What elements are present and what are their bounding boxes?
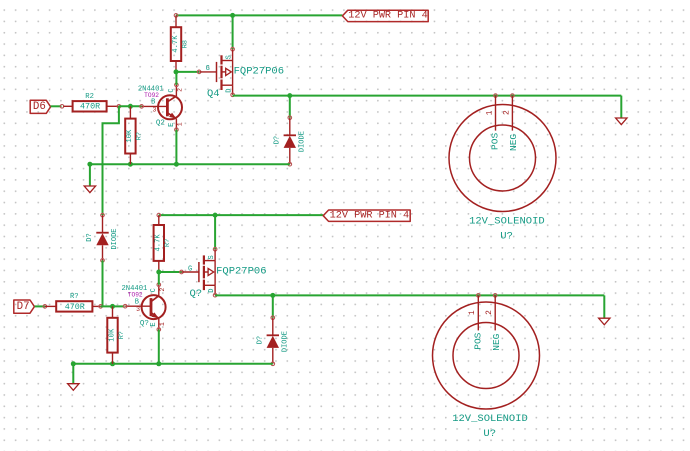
svg-text:4.7K: 4.7K <box>172 35 180 53</box>
wire clamp diode to base net <box>102 260 104 306</box>
svg-text:1: 1 <box>159 322 166 326</box>
svg-text:S: S <box>226 55 234 59</box>
svg-text:POS: POS <box>490 133 501 150</box>
svg-text:R?: R? <box>118 331 126 339</box>
solenoid U? lower 12V_SOLENOID <box>433 294 540 441</box>
wire lower collector up <box>158 272 160 285</box>
diode D? input clamp <box>86 213 119 262</box>
svg-text:G: G <box>206 65 210 73</box>
wire Q4 source drop <box>232 15 234 49</box>
pin end R2 left <box>60 105 64 109</box>
ground lower right <box>599 318 610 325</box>
svg-text:TO92: TO92 <box>144 92 159 99</box>
svg-text:Q4: Q4 <box>207 88 220 100</box>
svg-text:E: E <box>150 322 158 326</box>
resistor R8 4.7K <box>171 15 190 72</box>
wire gnd stub top <box>89 164 91 186</box>
svg-text:470R: 470R <box>80 102 100 112</box>
global label 12V PWR PIN 4 (top) <box>342 10 428 22</box>
junction 12V rail / Q4 source <box>230 13 235 18</box>
wire lower diode drop <box>272 295 274 317</box>
junction lower 12V rail / Q? source <box>213 213 218 218</box>
svg-text:C: C <box>168 88 176 92</box>
wire gnd stub lower <box>72 364 74 384</box>
junction ground rail / R 10K <box>128 162 133 167</box>
junction lower base net / 10K <box>110 304 115 309</box>
svg-text:4.7K: 4.7K <box>155 234 163 252</box>
svg-text:E: E <box>168 123 176 127</box>
svg-text:TO92: TO92 <box>128 292 143 299</box>
wire gate net Q4 <box>176 71 199 73</box>
svg-text:R?: R? <box>164 239 172 247</box>
ground top left <box>84 186 95 193</box>
wire Q4 drain rail <box>233 95 622 97</box>
transistor Q2 2N4401 <box>140 83 184 131</box>
svg-text:D: D <box>208 289 216 293</box>
svg-text:3: 3 <box>136 306 140 313</box>
junction drain / diode D? top <box>287 93 292 98</box>
resistor 10K pulldown lower <box>107 306 126 363</box>
svg-text:Q2: Q2 <box>156 120 165 128</box>
wire Q2 collector up <box>175 72 177 85</box>
pin end R8 top <box>174 14 178 18</box>
resistor 10K pulldown top <box>125 106 144 164</box>
svg-text:FQP27P06: FQP27P06 <box>234 66 284 78</box>
svg-text:POS: POS <box>473 332 484 349</box>
svg-text:D: D <box>226 88 234 92</box>
resistor 4.7K lower <box>154 215 173 272</box>
wire base net Q2 <box>119 105 142 107</box>
wire emitter ground rail lower <box>73 363 272 365</box>
wire D7 to R? <box>35 305 45 307</box>
svg-text:1: 1 <box>485 110 494 115</box>
svg-text:1: 1 <box>177 122 184 126</box>
svg-text:2: 2 <box>485 310 494 315</box>
wire lower base net <box>101 305 125 307</box>
svg-text:S: S <box>208 255 216 259</box>
svg-text:2: 2 <box>159 288 166 292</box>
global label 12V PWR PIN 4 (lower) <box>323 210 410 222</box>
svg-text:D?: D? <box>274 136 282 144</box>
svg-text:R?: R? <box>136 132 144 140</box>
ground top right <box>616 118 627 125</box>
svg-text:10K: 10K <box>108 328 116 342</box>
wire lower emitter down <box>158 330 160 364</box>
transistor Q? 2N4401 lower <box>123 283 166 331</box>
wire emitter ground rail top <box>90 163 290 165</box>
global label D7 <box>14 300 35 313</box>
wire 12V top rail <box>176 14 342 16</box>
wire gate net lower <box>159 271 182 273</box>
svg-text:DIODE: DIODE <box>298 131 306 152</box>
junction base net / R 10K top <box>128 104 133 109</box>
svg-text:U?: U? <box>483 428 496 440</box>
diode D? flyback top <box>274 116 307 166</box>
svg-text:3: 3 <box>153 106 157 113</box>
junction ground rail / Q2 emitter <box>174 162 179 167</box>
wire lower Q? source drop <box>214 215 216 249</box>
junction lower rail / gnd stub <box>71 361 76 366</box>
svg-text:R2: R2 <box>85 93 94 101</box>
junction lower rail / 10K <box>110 361 115 366</box>
svg-text:12V PWR PIN 4: 12V PWR PIN 4 <box>348 11 427 22</box>
wire lower drain rail <box>215 294 604 296</box>
svg-text:R?: R? <box>70 293 79 301</box>
svg-text:470R: 470R <box>65 302 85 312</box>
pin end lower 470R left <box>43 305 47 309</box>
svg-text:12V PWR PIN 4: 12V PWR PIN 4 <box>330 211 409 222</box>
ground lower left <box>68 384 79 391</box>
mosfet Q? FQP27P06 lower <box>180 247 267 300</box>
svg-text:D6: D6 <box>33 101 46 113</box>
svg-text:12V_SOLENOID: 12V_SOLENOID <box>469 215 545 227</box>
wire lower drain to ground corner <box>603 295 605 317</box>
pin end lower 4.7K top <box>157 213 161 217</box>
wire R2 to lower diode <box>103 106 119 215</box>
svg-text:Q?: Q? <box>140 320 149 328</box>
junction R8 / gate / Q2 collector <box>174 69 179 74</box>
svg-text:U?: U? <box>500 231 513 243</box>
solenoid U? top 12V_SOLENOID <box>449 94 556 243</box>
svg-text:1: 1 <box>468 310 477 315</box>
wire drain to ground corner <box>620 96 622 118</box>
junction ground rail / gnd stub <box>87 162 92 167</box>
svg-text:2: 2 <box>502 110 511 115</box>
global label D6 <box>30 100 50 113</box>
wire diode top drop <box>289 96 291 118</box>
svg-text:D?: D? <box>257 336 265 344</box>
svg-text:D?: D? <box>86 233 94 241</box>
svg-text:C: C <box>150 288 158 292</box>
svg-text:10K: 10K <box>126 129 134 143</box>
svg-text:DIODE: DIODE <box>111 228 119 249</box>
junction lower rail / emitter <box>156 361 161 366</box>
resistor 470R lower <box>45 293 101 312</box>
junction lower 4.7K / gate / collector <box>156 270 161 275</box>
svg-text:DIODE: DIODE <box>281 331 289 352</box>
svg-text:2: 2 <box>177 88 184 92</box>
svg-text:G: G <box>188 265 192 273</box>
wire 12V lower rail <box>159 214 323 216</box>
svg-text:FQP27P06: FQP27P06 <box>216 266 266 278</box>
pin end lower 470R right <box>99 305 103 309</box>
svg-text:Q?: Q? <box>190 288 203 300</box>
wire Q2 emitter down <box>175 130 177 165</box>
wire D6 to R2 <box>51 105 62 107</box>
junction lower drain / diode top <box>270 293 275 298</box>
svg-text:NEG: NEG <box>491 333 502 350</box>
svg-text:R8: R8 <box>181 40 189 48</box>
svg-text:D7: D7 <box>17 301 30 313</box>
resistor R2 470R <box>63 93 119 112</box>
pin end R2 right <box>117 105 121 109</box>
mosfet Q4 FQP27P06 <box>197 47 284 99</box>
svg-text:12V_SOLENOID: 12V_SOLENOID <box>452 413 528 425</box>
diode D? flyback lower <box>257 316 290 366</box>
svg-text:NEG: NEG <box>508 134 519 151</box>
